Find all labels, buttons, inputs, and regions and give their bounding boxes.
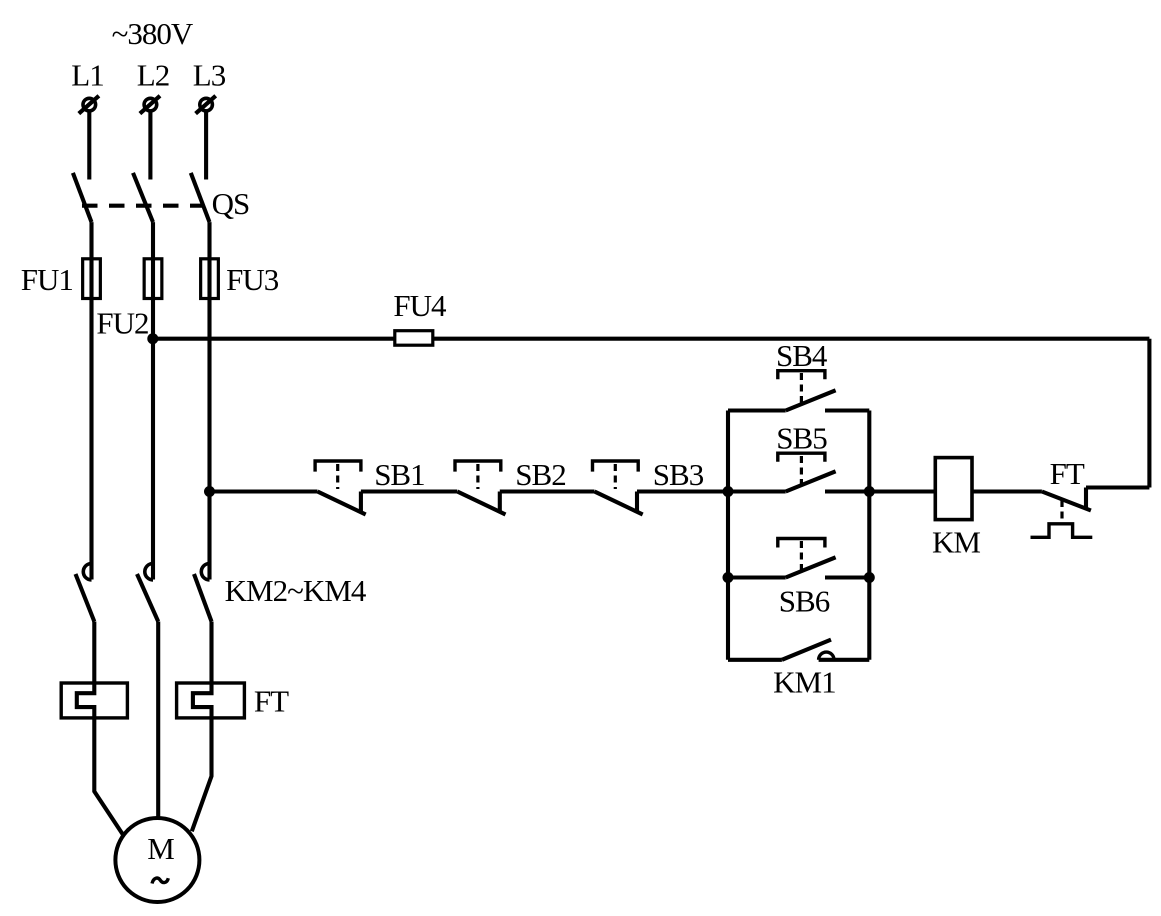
wire pole2 to motor	[156, 622, 160, 819]
pushbutton SB4 (NO)	[728, 371, 869, 411]
wire L1 to QS	[87, 110, 91, 179]
terminal L3	[196, 96, 216, 114]
svg-text:~380V: ~380V	[112, 16, 194, 51]
pushbutton SB3 (NC)	[593, 461, 643, 515]
contactor KM2~KM4 pole3 contact	[194, 564, 212, 622]
wire pole3 QS to KM contact	[207, 222, 211, 579]
wire pole3 to motor through heater	[192, 622, 212, 832]
wire rung left segment	[210, 489, 318, 493]
terminal L1	[79, 96, 99, 114]
wire L2 to QS	[148, 110, 152, 179]
wire rung SB2-SB3	[500, 489, 595, 493]
wire rung SB1-SB2	[361, 489, 457, 493]
disconnect switch QS pole 1 blade	[73, 173, 92, 222]
svg-text:SB1: SB1	[374, 457, 424, 492]
svg-text:L2: L2	[137, 58, 169, 93]
svg-text:SB2: SB2	[515, 457, 565, 492]
svg-text:L3: L3	[193, 58, 226, 93]
pushbutton SB1 (NC)	[315, 461, 366, 515]
motor M circle	[115, 818, 199, 902]
svg-text:SB5: SB5	[776, 421, 827, 456]
QS linkage dashed line	[82, 204, 205, 208]
node parallel block right top junction	[864, 486, 875, 497]
svg-text:FU3: FU3	[226, 262, 279, 297]
svg-text:FT: FT	[254, 684, 289, 719]
svg-text:KM1: KM1	[773, 664, 835, 699]
wire FT contact to right vertical	[1086, 485, 1149, 489]
node parallel block right lower junction	[864, 572, 875, 583]
wire parallel block right vertical	[867, 411, 871, 660]
wire L3 to QS	[204, 110, 208, 179]
node parallel block left top junction	[723, 486, 734, 497]
coil KM	[935, 458, 972, 520]
wire junction to KM coil	[869, 489, 935, 493]
pushbutton SB2 (NC)	[455, 461, 506, 515]
svg-text:SB3: SB3	[653, 457, 704, 492]
wire rung SB3 to parallel block	[637, 489, 728, 493]
thermal relay FT NC contact (control)	[1031, 488, 1093, 538]
svg-text:L1: L1	[71, 58, 103, 93]
svg-text:KM2~KM4: KM2~KM4	[225, 573, 367, 608]
node FU2 junction dot	[147, 333, 158, 344]
pushbutton SB5 (NO)	[728, 453, 869, 491]
contactor KM2~KM4 pole1 contact	[76, 564, 95, 622]
svg-text:M: M	[147, 831, 174, 866]
fuse FU4	[395, 331, 433, 346]
terminal L2	[140, 96, 160, 114]
disconnect switch QS pole 3 blade	[191, 173, 210, 222]
disconnect switch QS pole 2 blade	[133, 173, 153, 222]
thermal relay FT heater box 2	[177, 683, 245, 718]
contactor auxiliary contact KM1	[728, 640, 869, 660]
fuse FU2	[144, 259, 162, 299]
wire pole1 to motor through heater	[77, 622, 123, 835]
wire parallel block left vertical	[726, 411, 730, 660]
svg-text:QS: QS	[212, 186, 250, 221]
svg-text:SB6: SB6	[779, 584, 830, 619]
svg-text:FU1: FU1	[21, 262, 73, 297]
svg-text:FU2: FU2	[96, 306, 148, 341]
svg-text:FT: FT	[1050, 456, 1085, 491]
wire pole1 QS to KM contact	[89, 222, 93, 579]
fuse FU1	[83, 259, 101, 299]
wire KM coil to FT contact	[972, 489, 1042, 493]
thermal relay FT heater box 1	[61, 683, 127, 718]
fuse FU3	[201, 259, 219, 299]
wire right vertical	[1147, 339, 1151, 488]
node parallel block left lower junction	[723, 572, 734, 583]
wire pole2 QS to KM contact	[151, 222, 155, 579]
svg-text:KM: KM	[932, 524, 980, 559]
node control rung left junction	[204, 486, 215, 497]
wire control top line	[153, 337, 1150, 341]
svg-text:SB4: SB4	[776, 338, 828, 373]
svg-text:FU4: FU4	[393, 288, 447, 323]
contactor KM2~KM4 pole2 contact	[137, 564, 158, 622]
pushbutton SB6 (NO)	[728, 539, 869, 578]
label motor ~	[152, 878, 168, 883]
